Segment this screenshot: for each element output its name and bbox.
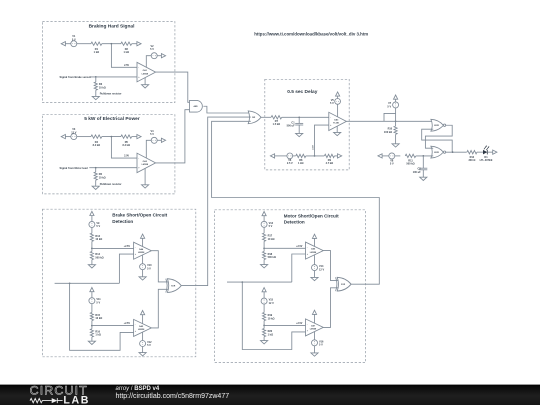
svg-text:10 kΩ: 10 kΩ <box>268 317 275 320</box>
OR gate OR1 <box>248 111 261 124</box>
svg-text:10 kΩ: 10 kΩ <box>99 86 106 89</box>
wire <box>263 216 265 222</box>
voltage source V4 <box>151 137 157 143</box>
wire <box>263 241 265 251</box>
svg-text:5 V: 5 V <box>150 48 154 51</box>
wire comparator V+ <box>142 314 144 323</box>
wire <box>298 125 300 133</box>
wire motor signal <box>227 281 292 283</box>
ground <box>92 96 99 99</box>
svg-text:2.0V: 2.0V <box>124 155 129 158</box>
wire AND output to OR <box>203 106 250 113</box>
wire <box>282 116 329 118</box>
wire <box>91 304 93 313</box>
wire comparator V- <box>314 332 316 340</box>
resistor R9 <box>324 154 334 157</box>
svg-text:100 kΩ: 100 kΩ <box>384 131 392 134</box>
svg-text:Detection: Detection <box>112 219 133 224</box>
wire OR output <box>261 116 271 118</box>
NOR gate NOR1 <box>431 119 444 131</box>
svg-text:LAB: LAB <box>63 394 90 405</box>
wire delay output <box>346 120 395 122</box>
svg-text:1 kΩ: 1 kΩ <box>298 162 303 165</box>
wire <box>157 55 161 57</box>
resistor R19 <box>263 313 266 321</box>
op-amp OA4 <box>134 242 152 259</box>
wire <box>77 43 91 45</box>
voltage source V16 <box>312 340 318 346</box>
svg-text:2.5V: 2.5V <box>124 64 129 67</box>
svg-text:8.2 kΩ: 8.2 kΩ <box>93 144 101 147</box>
node <box>69 282 71 284</box>
ground <box>261 341 268 344</box>
op-amp OA1 <box>137 62 156 82</box>
wire opamp V+ <box>146 140 151 158</box>
svg-text:5 V: 5 V <box>72 38 76 41</box>
ground <box>420 177 427 180</box>
op-amp OA7 <box>306 319 324 336</box>
voltage source V12 <box>140 341 146 347</box>
svg-text:2.5V: 2.5V <box>312 145 314 150</box>
svg-text:Braking Hard Signal: Braking Hard Signal <box>89 24 135 30</box>
svg-text:330 Ω: 330 Ω <box>468 159 475 162</box>
node <box>241 281 243 283</box>
wire <box>65 43 70 45</box>
wire OA7 out to XOR <box>323 288 338 328</box>
node <box>91 248 93 250</box>
terminal T2 <box>137 42 141 46</box>
wire <box>395 99 397 102</box>
svg-text:2.5 V: 2.5 V <box>287 162 293 165</box>
voltage source V15 <box>261 298 267 304</box>
svg-text:10 kΩ: 10 kΩ <box>268 238 275 241</box>
capacitor C2 <box>422 156 424 168</box>
NOR gate NOR2 <box>431 146 444 158</box>
svg-text:1 kΩ: 1 kΩ <box>94 51 99 54</box>
wire opamp V- <box>336 126 338 132</box>
node <box>111 43 113 45</box>
resistor R1 <box>91 42 102 45</box>
node <box>263 325 265 327</box>
svg-text:500 kΩ: 500 kΩ <box>268 256 276 259</box>
wire <box>337 96 339 99</box>
svg-text:+2.5V: +2.5V <box>124 322 131 325</box>
ground <box>334 132 341 135</box>
wire <box>91 260 93 265</box>
wire NOR2 out feedback to NOR1 in <box>422 129 453 152</box>
svg-text:AND: AND <box>194 105 199 108</box>
ground <box>261 265 268 268</box>
resistor R18 <box>263 251 266 259</box>
resistor R13 <box>90 233 93 241</box>
ground <box>88 341 95 344</box>
node <box>111 136 113 138</box>
wire <box>142 347 144 353</box>
node <box>395 120 397 122</box>
wire drop to OA7 <box>242 282 305 349</box>
wire XOR1 output riser to OR <box>181 117 251 286</box>
svg-text:5 V: 5 V <box>96 301 100 304</box>
svg-text:LM358: LM358 <box>310 329 317 331</box>
wire opamp V- <box>144 168 146 184</box>
wire <box>395 134 397 144</box>
node <box>452 151 454 153</box>
voltage source V8 <box>389 153 395 159</box>
wire <box>102 136 121 138</box>
svg-text:5 V: 5 V <box>319 344 323 347</box>
node <box>314 155 316 157</box>
svg-text:OR: OR <box>252 117 256 119</box>
logo resistor diode glyph <box>30 398 52 402</box>
wire to comparator <box>264 247 305 249</box>
wire <box>132 136 137 138</box>
wire signal input <box>89 76 137 78</box>
terminal T1 <box>61 42 65 46</box>
wire <box>334 155 337 157</box>
wire comparator V+ <box>314 238 316 246</box>
dashed box 5 kW of Electrical Power <box>42 115 175 194</box>
wire comparator V- <box>314 255 316 265</box>
svg-text:1 kΩ: 1 kΩ <box>268 333 273 336</box>
wire opamp V+ <box>146 56 151 67</box>
resistor R3 pulldown <box>95 77 97 82</box>
svg-text:12 V: 12 V <box>71 131 76 134</box>
voltage source V7 <box>395 113 397 121</box>
ground <box>142 85 149 88</box>
resistor R8 <box>296 154 306 157</box>
svg-text:TL081: TL081 <box>333 123 340 125</box>
terminal T11 <box>378 154 382 158</box>
wire divider tap <box>111 44 137 68</box>
svg-text:500 uF: 500 uF <box>287 125 295 128</box>
svg-text:500 kΩ: 500 kΩ <box>95 256 103 259</box>
wire <box>91 241 93 251</box>
svg-text:5 V: 5 V <box>96 225 100 228</box>
wire OA5 out to XOR <box>151 289 168 328</box>
resistor R12 <box>467 150 477 153</box>
dashed box Brake Short Open Circuit Detection <box>42 209 195 357</box>
node <box>298 116 300 118</box>
terminal T9 <box>338 154 342 158</box>
voltage source V5 <box>335 99 341 105</box>
svg-text:5 V: 5 V <box>330 102 334 105</box>
wire to comparator <box>92 325 134 327</box>
voltage source V11 <box>89 298 95 304</box>
svg-text:5 kW of Electrical Power: 5 kW of Electrical Power <box>84 116 140 122</box>
ground <box>311 353 318 356</box>
wire OA1 output to AND <box>156 72 190 102</box>
wire <box>95 90 97 96</box>
wire <box>263 321 265 329</box>
svg-text:LM358: LM358 <box>142 164 149 166</box>
wire <box>157 139 161 141</box>
wire XOR2 output riser to OR <box>212 121 380 284</box>
wire opamp V+ <box>337 104 339 117</box>
wire to comparator <box>264 324 305 326</box>
svg-text:Signal from Motor lead: Signal from Motor lead <box>60 166 89 170</box>
terminal T19 <box>262 288 266 292</box>
terminal T17 <box>262 212 266 216</box>
svg-text:10 kΩ: 10 kΩ <box>99 176 106 179</box>
op-amp OA3 <box>329 112 347 130</box>
wire OA4 out to XOR <box>151 251 168 282</box>
svg-text:Brake Short/Open Circuit: Brake Short/Open Circuit <box>112 213 167 218</box>
node <box>95 167 97 169</box>
wire <box>477 151 483 153</box>
svg-text:4.7 kΩ: 4.7 kΩ <box>326 162 334 165</box>
svg-text:NOR2: NOR2 <box>434 152 439 154</box>
wire signal input <box>89 167 137 169</box>
svg-text:LM358: LM358 <box>138 329 145 331</box>
LED D1 <box>483 150 487 155</box>
dashed box Motor Short Open Circuit Detection <box>215 210 366 363</box>
svg-text:5 V: 5 V <box>390 163 394 166</box>
svg-text:Signal from Brake sensor: Signal from Brake sensor <box>60 75 91 79</box>
ground <box>88 265 95 268</box>
terminal T12 <box>493 150 497 154</box>
svg-text:+2.5V: +2.5V <box>296 245 303 248</box>
op-amp OA5 <box>134 319 152 336</box>
ground <box>296 133 303 136</box>
wire comparator V+ <box>314 314 316 323</box>
ground <box>139 277 146 280</box>
terminal T8 <box>270 154 274 158</box>
wire <box>142 270 144 277</box>
wire comparator V- <box>142 332 144 340</box>
wire <box>293 155 296 157</box>
op-amp OA6 <box>306 242 324 259</box>
svg-text:XOR: XOR <box>341 284 346 286</box>
voltage source V6 <box>287 153 293 159</box>
wire <box>314 271 316 278</box>
wire riser to OA6 <box>292 254 306 282</box>
wire comparator V+ <box>142 238 144 247</box>
wire <box>314 346 316 353</box>
resistor R5 <box>121 135 132 138</box>
node <box>422 155 424 157</box>
wire to NOR1 <box>396 120 434 122</box>
wire to comparator <box>92 247 134 249</box>
terminal T13 <box>90 211 94 215</box>
ground <box>92 186 99 189</box>
resistor R4 <box>91 135 102 138</box>
svg-text:arroy / BSPD v4: arroy / BSPD v4 <box>116 386 160 392</box>
voltage source V1 <box>71 41 77 47</box>
svg-text:500 kΩ: 500 kΩ <box>406 163 414 166</box>
svg-text:5 V: 5 V <box>147 344 151 347</box>
svg-text:+2.5V: +2.5V <box>124 245 131 248</box>
svg-text:LM358: LM358 <box>142 73 149 75</box>
svg-text:12 V: 12 V <box>269 302 274 305</box>
resistor R10 pulldown <box>395 121 397 126</box>
resistor R6 pulldown <box>95 168 97 172</box>
terminal T14 <box>141 234 145 238</box>
terminal T5 <box>137 135 141 139</box>
terminal T20 <box>312 310 316 314</box>
wire drop to OA5 <box>70 283 134 350</box>
svg-text:LM358: LM358 <box>310 252 317 254</box>
ground <box>142 185 149 188</box>
wire <box>91 321 93 329</box>
svg-text:8.2 kΩ: 8.2 kΩ <box>123 144 131 147</box>
resistor R16 <box>90 329 93 337</box>
node <box>263 247 265 249</box>
svg-text:10 kΩ: 10 kΩ <box>95 317 102 320</box>
wire <box>91 337 93 341</box>
wire <box>382 155 389 157</box>
resistor R11 <box>405 154 416 157</box>
svg-text:5 V: 5 V <box>387 105 391 108</box>
ground <box>392 144 399 147</box>
wire jog <box>384 113 396 121</box>
wire riser to OA4 <box>119 254 133 283</box>
svg-text:Motor Short/Open Circuit: Motor Short/Open Circuit <box>284 213 339 218</box>
resistor R7 <box>271 116 282 119</box>
svg-text:XOR: XOR <box>171 285 176 287</box>
svg-text:0.5 sec Delay: 0.5 sec Delay <box>287 89 317 95</box>
resistor R2 <box>121 42 132 45</box>
svg-text:1.5 kΩ: 1.5 kΩ <box>273 123 281 126</box>
voltage source V3 <box>71 134 77 140</box>
op-amp OA2 <box>137 153 156 173</box>
svg-text:1 kΩ: 1 kΩ <box>95 334 100 337</box>
wire <box>487 151 492 153</box>
resistor R15 <box>90 312 93 320</box>
svg-text:5 V: 5 V <box>147 267 151 270</box>
wire opamp V- <box>144 78 146 85</box>
wire inverting input riser <box>315 125 329 156</box>
svg-text:5 V: 5 V <box>269 225 273 228</box>
svg-text:Detection: Detection <box>284 220 305 225</box>
terminal T6 <box>161 138 165 142</box>
wire OA2 output to AND <box>156 110 190 163</box>
resistor R17 <box>263 233 266 241</box>
wire <box>132 43 137 45</box>
XOR gate XOR1 <box>167 279 181 293</box>
wire <box>306 155 324 157</box>
wire <box>65 136 70 138</box>
svg-text:https://www.ti.com/download/kb: https://www.ti.com/download/kbase/volt/v… <box>254 31 368 36</box>
wire <box>275 155 287 157</box>
ground <box>139 353 146 356</box>
wire divider tap <box>111 137 137 159</box>
svg-text:LTL-307EE: LTL-307EE <box>480 159 493 162</box>
wire <box>263 260 265 265</box>
svg-text:10 kΩ: 10 kΩ <box>95 238 102 241</box>
AND gate AND1 <box>190 100 203 112</box>
resistor R14 <box>90 252 93 260</box>
terminal T7 <box>336 92 340 96</box>
terminal T15 <box>90 288 94 292</box>
resistor R20 <box>263 329 266 337</box>
svg-text:5 V: 5 V <box>150 133 154 136</box>
wire <box>263 227 265 233</box>
terminal T10 <box>394 95 398 99</box>
wire <box>91 292 93 298</box>
terminal T4 <box>61 135 65 139</box>
wire <box>102 43 121 45</box>
svg-text:12 V: 12 V <box>319 268 324 271</box>
wire <box>77 136 91 138</box>
terminal T18 <box>312 234 316 238</box>
node <box>95 76 97 78</box>
ground <box>311 277 318 280</box>
wire <box>263 337 265 341</box>
wire <box>95 180 97 186</box>
wire <box>416 155 433 157</box>
wire OA6 out to XOR <box>323 251 338 281</box>
wire <box>91 216 93 222</box>
dashed box 0.5 sec Delay <box>265 79 349 170</box>
voltage source V14 <box>312 265 318 271</box>
wire <box>263 304 265 312</box>
svg-text:http://circuitlab.com/c5n8rm97: http://circuitlab.com/c5n8rm97zw477 <box>116 393 230 400</box>
wire <box>395 155 401 157</box>
svg-text:Pulldown resistor: Pulldown resistor <box>100 182 122 186</box>
XOR gate XOR2 <box>337 277 351 291</box>
wire brake signal <box>55 282 120 284</box>
svg-text:LM358: LM358 <box>138 252 145 254</box>
voltage source V2 <box>151 53 157 59</box>
voltage source V9 <box>89 221 95 227</box>
wire <box>91 227 93 233</box>
svg-text:+2.5V: +2.5V <box>296 322 303 325</box>
svg-text:100 uF: 100 uF <box>413 171 421 174</box>
dashed box Braking Hard Signal <box>42 22 175 103</box>
svg-text:Pulldown resistor: Pulldown resistor <box>100 92 122 96</box>
wire NOR2 output <box>446 151 467 153</box>
wire comparator V- <box>142 255 144 264</box>
capacitor C1 <box>298 117 300 123</box>
wire <box>263 292 265 298</box>
voltage source V13 <box>261 221 267 227</box>
wire NOR1 out to NOR2 in <box>425 125 452 148</box>
terminal T16 <box>141 311 145 315</box>
voltage source V10 <box>140 264 146 270</box>
terminal T3 <box>161 54 165 58</box>
wire <box>422 170 424 177</box>
svg-text:1 kΩ: 1 kΩ <box>124 51 129 54</box>
node <box>91 325 93 327</box>
svg-text:NOR2: NOR2 <box>434 125 439 127</box>
